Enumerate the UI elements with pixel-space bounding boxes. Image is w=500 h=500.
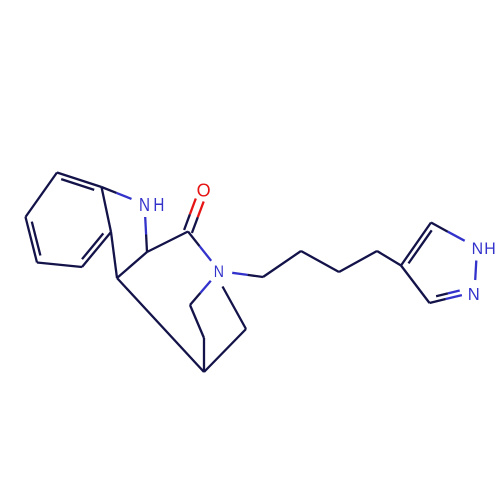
bond C4c-C4pz [377, 251, 401, 266]
benzene edge 3 [37, 263, 82, 268]
bond N3-C1c [232, 273, 247, 275]
benzene edge 2 [82, 232, 111, 267]
C4pz=C5pz inner double [409, 230, 432, 263]
bond C5pz-N1p [431, 223, 448, 232]
bond N1-C2 [144, 217, 147, 235]
svg-text:N: N [472, 240, 484, 258]
bond C4pz-C5pz [401, 223, 431, 266]
svg-text:H: H [153, 195, 164, 215]
bond C1c-C2c [263, 251, 301, 277]
bond C2p=O double line [184, 214, 190, 230]
svg-text:H: H [484, 240, 496, 258]
bond N1p-N2p [475, 261, 476, 281]
bond N3-f [200, 281, 210, 293]
svg-text:N: N [468, 284, 480, 304]
bond N2p-C3pz [446, 295, 462, 299]
bond C3pz-C4pz [401, 266, 430, 304]
bond C2-C3 [117, 252, 147, 278]
N2p=C3pz inner double [448, 291, 460, 294]
benzene inner double 2 [82, 233, 103, 259]
bond C2p=O double line [192, 217, 198, 233]
benzene inner double 4 [32, 222, 41, 256]
benzene edge 0 [57, 173, 102, 188]
bond C3c-C4c [339, 251, 377, 272]
benzene edge 1 [102, 187, 112, 232]
bond C3-C3a [111, 232, 117, 278]
bond f-h [190, 305, 204, 338]
svg-text:O: O [197, 181, 211, 202]
bond C2c-C3c [301, 251, 339, 272]
bond C3-V (long) [117, 278, 204, 372]
bond V-d [204, 329, 246, 372]
bond N1-C7a (indoline) [117, 193, 132, 199]
bond C2p-N3 [188, 232, 200, 247]
benzene edge 4 [26, 217, 38, 263]
bond h-V [203, 338, 205, 372]
svg-text:N: N [139, 195, 150, 215]
bond C2-C2p [147, 232, 188, 253]
bond d-e [223, 287, 247, 330]
benzene inner double 0 [61, 179, 94, 190]
benzene edge 5 [26, 173, 58, 218]
svg-text:N: N [214, 263, 224, 281]
